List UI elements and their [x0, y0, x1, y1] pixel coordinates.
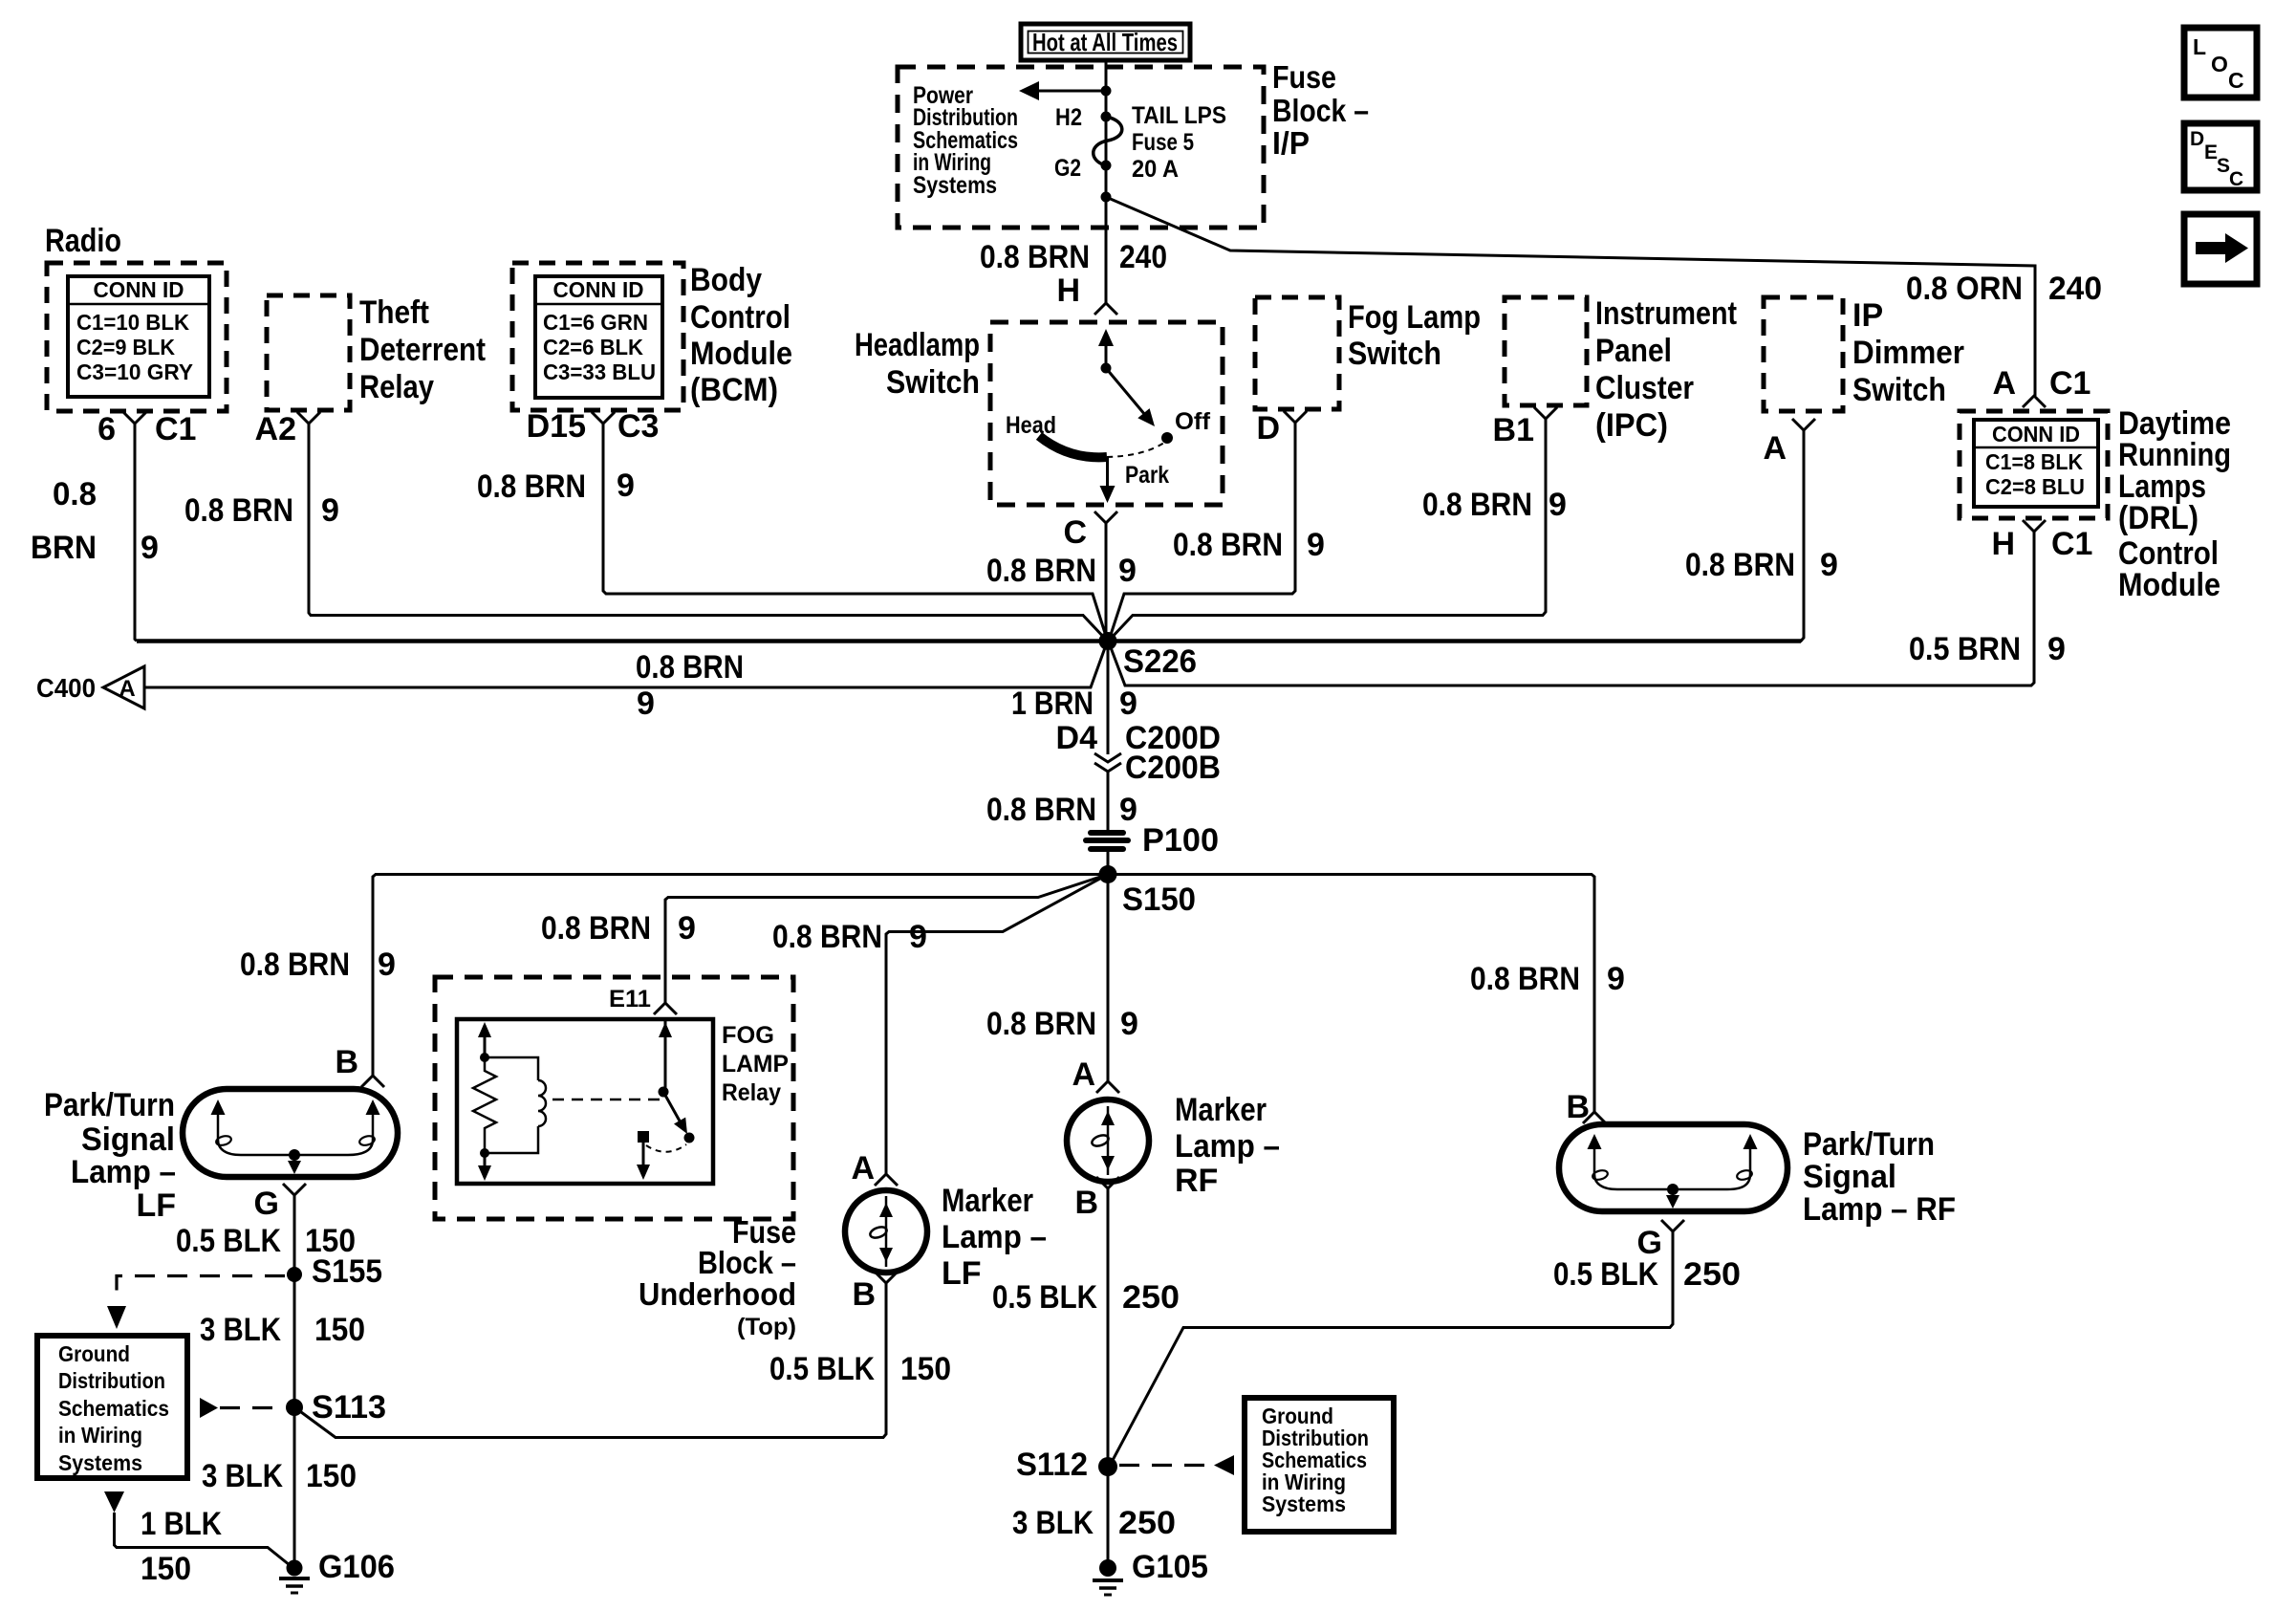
wire 0.5 BLK 250 (marker RF to S112): [1107, 1188, 1110, 1467]
svg-text:Hot at All Times: Hot at All Times: [1032, 28, 1178, 56]
splice S113: [286, 1389, 386, 1426]
svg-text:Instrument: Instrument: [1595, 295, 1737, 332]
svg-text:9: 9: [617, 468, 635, 504]
svg-text:G2: G2: [1054, 155, 1081, 182]
svg-text:S113: S113: [312, 1389, 386, 1426]
svg-text:240: 240: [2048, 271, 2102, 307]
svg-text:LF: LF: [942, 1255, 982, 1292]
instrument panel cluster (IPC): [1505, 295, 1737, 444]
svg-text:C2=9 BLK: C2=9 BLK: [76, 335, 175, 359]
wire S150 to fog lamp relay (0.8 BRN 9): [665, 875, 1108, 1004]
svg-text:0.5 BLK: 0.5 BLK: [1553, 1256, 1658, 1293]
body control module (BCM): [512, 262, 792, 410]
svg-text:Block –: Block –: [1272, 93, 1369, 128]
svg-text:A: A: [1763, 430, 1787, 467]
svg-text:Schematics: Schematics: [58, 1396, 169, 1421]
svg-text:C: C: [2229, 168, 2243, 190]
svg-text:Switch: Switch: [1852, 372, 1946, 408]
svg-text:FOG: FOG: [722, 1022, 774, 1049]
svg-text:0.8 BRN: 0.8 BRN: [1173, 527, 1283, 563]
relay coil: [485, 1057, 546, 1153]
svg-text:S112: S112: [1016, 1447, 1088, 1483]
svg-text:250: 250: [1122, 1279, 1180, 1316]
svg-text:C1=10 BLK: C1=10 BLK: [76, 310, 189, 335]
svg-text:Theft: Theft: [359, 294, 429, 331]
svg-text:(Top): (Top): [737, 1314, 796, 1340]
connector B of marker lamp LF: [852, 1272, 898, 1313]
label 0.8 BRN 9: [986, 792, 1137, 828]
splice S150: [1099, 865, 1197, 918]
svg-text:C3=10 GRY: C3=10 GRY: [76, 359, 193, 384]
svg-text:Body: Body: [690, 262, 762, 298]
svg-text:S155: S155: [312, 1253, 382, 1290]
svg-text:B: B: [1074, 1185, 1098, 1221]
svg-text:0.8 BRN: 0.8 BRN: [184, 492, 293, 529]
Fuse Block - I/P dashed box: [898, 67, 1264, 228]
label 0.5 BRN 9: [1909, 631, 2066, 667]
svg-text:Head: Head: [1006, 412, 1056, 439]
svg-text:S226: S226: [1123, 643, 1197, 680]
DRL connector H C1: [1991, 520, 2092, 562]
svg-text:0.8 BRN: 0.8 BRN: [986, 792, 1096, 828]
svg-text:9: 9: [1607, 961, 1625, 997]
label 0.8 BRN 240: [980, 239, 1167, 275]
park/turn signal lamp LF: [44, 1087, 398, 1224]
relay lower contact with down arrow: [637, 1131, 650, 1180]
wire headlamp switch to S226: [1105, 523, 1108, 641]
wire S150 to marker lamp LF (0.8 BRN 9): [886, 875, 1108, 1175]
svg-text:250: 250: [1683, 1256, 1741, 1293]
arrow to power distribution schematics: [1019, 81, 1112, 100]
BCM connector D15 C3: [527, 408, 660, 445]
svg-text:9: 9: [678, 910, 696, 947]
label 0.5 BLK 150: [769, 1351, 951, 1387]
svg-text:C: C: [1063, 514, 1087, 551]
svg-text:Panel: Panel: [1595, 333, 1672, 369]
connector H into headlamp switch: [1056, 272, 1117, 315]
wire 3 BLK 150 (S155 to S113): [293, 1274, 296, 1407]
label 0.8 ORN 240: [1906, 271, 2102, 307]
ground reference dashed arrow from S112: [1119, 1455, 1234, 1475]
svg-text:CONN ID: CONN ID: [1992, 422, 2080, 446]
svg-text:A: A: [851, 1150, 875, 1186]
svg-text:Lamp – RF: Lamp – RF: [1803, 1191, 1956, 1228]
label: Fuse Block - Underhood (Top): [639, 1214, 796, 1340]
svg-text:Underhood: Underhood: [639, 1276, 796, 1312]
dimmer switch connector A: [1763, 419, 1815, 467]
Off contact: [1161, 408, 1211, 444]
label 1 BRN 9: [1011, 686, 1137, 722]
svg-text:0.5 BRN: 0.5 BRN: [1909, 631, 2021, 667]
svg-text:B: B: [852, 1276, 876, 1313]
splice S155: [287, 1253, 382, 1290]
wire radio to S226 (0.8 BRN 9): [135, 424, 137, 642]
daytime running lamps (DRL) control module: [1960, 405, 2231, 603]
theft relay connector A2: [255, 411, 320, 447]
svg-text:C3: C3: [617, 408, 659, 445]
svg-text:0.8 BRN: 0.8 BRN: [772, 919, 882, 955]
svg-text:0.8 BRN: 0.8 BRN: [1685, 547, 1795, 583]
svg-text:Fuse 5: Fuse 5: [1132, 129, 1194, 156]
svg-text:Park: Park: [1125, 462, 1169, 489]
wire P100 to S150: [1107, 852, 1110, 874]
svg-text:9: 9: [1119, 686, 1137, 722]
svg-text:Block –: Block –: [698, 1245, 796, 1280]
svg-text:G105: G105: [1132, 1549, 1208, 1585]
svg-text:9: 9: [378, 947, 396, 983]
svg-text:3 BLK: 3 BLK: [202, 1458, 283, 1494]
IP dimmer switch: [1764, 297, 1964, 411]
svg-text:250: 250: [1118, 1505, 1176, 1541]
svg-text:D15: D15: [527, 408, 586, 445]
label 0.8 BRN 9 (dimmer wire): [1685, 547, 1838, 583]
svg-text:C2=8 BLU: C2=8 BLU: [1985, 474, 2085, 499]
fog lamp relay box: [457, 1019, 713, 1184]
headlamp switch common feed with up arrow: [1098, 329, 1114, 374]
svg-text:0.8 BRN: 0.8 BRN: [1422, 487, 1532, 523]
svg-text:Marker: Marker: [942, 1183, 1033, 1219]
svg-text:0.8 BRN: 0.8 BRN: [980, 239, 1090, 275]
svg-text:in Wiring: in Wiring: [58, 1423, 142, 1448]
fog lamp switch: [1255, 297, 1481, 409]
svg-text:D4: D4: [1056, 720, 1098, 756]
junction dot below fuse: [1101, 192, 1112, 203]
svg-text:Park/Turn: Park/Turn: [1803, 1126, 1935, 1163]
wire IPC to S226: [1109, 419, 1546, 641]
svg-text:Fog Lamp: Fog Lamp: [1348, 299, 1481, 336]
wire S150 to park/turn RF (0.8 BRN 9): [1108, 875, 1594, 1113]
dashed arc Park to Off: [1107, 443, 1164, 457]
label: FOG LAMP Relay: [722, 1022, 789, 1106]
svg-text:LAMP: LAMP: [722, 1051, 789, 1078]
headlamp switch dashed box: [990, 322, 1223, 505]
svg-text:C1: C1: [155, 411, 196, 447]
svg-text:Headlamp: Headlamp: [855, 327, 980, 363]
label 3 BLK 150: [200, 1312, 365, 1348]
svg-text:Deterrent: Deterrent: [359, 332, 486, 368]
label 0.8 BRN / 9 (C400 wire): [636, 649, 744, 722]
svg-text:A: A: [1072, 1056, 1095, 1093]
connector C200D / C200B: [1056, 720, 1221, 786]
svg-text:E: E: [2204, 142, 2218, 163]
IPC connector B1: [1493, 407, 1557, 448]
svg-text:9: 9: [1119, 792, 1137, 828]
svg-text:Dimmer: Dimmer: [1852, 335, 1964, 371]
svg-text:3 BLK: 3 BLK: [200, 1312, 281, 1348]
wire 3 BLK 250 (S112 to G105): [1107, 1467, 1110, 1568]
label 0.8 BRN 9 (theft relay wire): [184, 492, 339, 529]
svg-text:0.8 BRN: 0.8 BRN: [636, 649, 744, 686]
svg-text:B1: B1: [1493, 412, 1534, 448]
svg-text:Module: Module: [690, 336, 792, 372]
ground reference dashed arrow from S113: [200, 1398, 285, 1418]
connector C below headlamp switch: [1063, 512, 1117, 551]
svg-text:0.8 ORN: 0.8 ORN: [1906, 271, 2023, 307]
svg-text:Cluster: Cluster: [1595, 370, 1694, 406]
svg-text:9: 9: [1307, 527, 1325, 563]
relay actuation dashed link: [552, 1099, 661, 1101]
relay coil branch left pin: [478, 1022, 491, 1181]
ground G105: [1093, 1549, 1208, 1595]
theft deterrent relay: [267, 294, 486, 410]
svg-text:L: L: [2193, 34, 2206, 59]
label 0.8 BRN 9 (headlamp wire): [986, 553, 1137, 589]
label 0.8 BRN 9 (IPC wire): [1422, 487, 1567, 523]
svg-text:CONN ID: CONN ID: [94, 277, 184, 302]
svg-text:C1=6 GRN: C1=6 GRN: [543, 310, 648, 335]
ground distribution schematics box (left): [37, 1336, 187, 1478]
label: Headlamp Switch: [855, 327, 980, 401]
grommet P100: [1086, 822, 1219, 859]
connector G of park/turn LF: [254, 1184, 306, 1222]
svg-text:Control: Control: [690, 299, 791, 336]
svg-text:S: S: [2217, 155, 2230, 177]
wire 0.8 ORN 240 to DRL module: [1106, 197, 2035, 396]
svg-text:D: D: [1256, 410, 1280, 446]
DESC icon box: [2184, 123, 2257, 190]
svg-text:BRN: BRN: [31, 530, 97, 566]
svg-text:Relay: Relay: [722, 1079, 781, 1106]
wire S226 to C400 (0.8 BRN 9): [144, 642, 1107, 687]
splice S226: [1099, 632, 1198, 680]
svg-text:H: H: [1991, 526, 2015, 562]
svg-text:0.8 BRN: 0.8 BRN: [477, 468, 586, 505]
svg-text:Park/Turn: Park/Turn: [44, 1087, 175, 1123]
svg-text:0.8 BRN: 0.8 BRN: [1470, 961, 1580, 997]
forward arrow icon box: [2184, 214, 2257, 284]
svg-text:Switch: Switch: [1348, 336, 1441, 372]
svg-text:A: A: [1992, 365, 2016, 402]
radio component: [45, 223, 227, 411]
wiper thick arc Head to Park: [1039, 436, 1107, 457]
splice S112: [1016, 1447, 1117, 1483]
label 0.8 BRN 9 (marker LF wire): [772, 919, 927, 955]
svg-text:9: 9: [1118, 553, 1137, 589]
marker lamp LF: [845, 1183, 1047, 1292]
svg-text:150: 150: [314, 1312, 365, 1348]
svg-text:3 BLK: 3 BLK: [1012, 1505, 1094, 1541]
connector E11 into fog lamp relay: [609, 986, 677, 1014]
label 0.5 BLK 150: [176, 1223, 356, 1259]
svg-text:9: 9: [1549, 487, 1567, 523]
svg-text:A2: A2: [255, 411, 296, 447]
svg-text:C: C: [2228, 68, 2244, 93]
wire dimmer switch to S226 (bus right end): [1116, 430, 1804, 642]
svg-text:150: 150: [141, 1551, 191, 1587]
svg-text:(IPC): (IPC): [1595, 407, 1668, 444]
svg-text:Lamp –: Lamp –: [942, 1219, 1047, 1255]
svg-text:E11: E11: [609, 986, 651, 1012]
svg-text:240: 240: [1119, 239, 1167, 275]
LOC icon box: [2184, 28, 2257, 98]
reference arrow to G106 from ground box: [104, 1491, 290, 1565]
svg-text:RF: RF: [1175, 1163, 1218, 1199]
connector G of park/turn RF: [1637, 1220, 1684, 1261]
svg-text:Systems: Systems: [1262, 1491, 1346, 1516]
svg-text:Relay: Relay: [359, 369, 434, 405]
wire 0.8 BRN 9 (C200B to P100): [1107, 772, 1110, 830]
svg-text:Signal: Signal: [1803, 1159, 1896, 1195]
label 0.8 BRN 9 (radio wire): [31, 476, 159, 566]
svg-text:Distribution: Distribution: [58, 1368, 165, 1393]
svg-text:1 BLK: 1 BLK: [141, 1506, 222, 1542]
wire S150 to marker lamp RF (0.8 BRN 9): [1107, 875, 1110, 1082]
marker lamp RF: [1067, 1092, 1280, 1199]
svg-text:1 BRN: 1 BRN: [1011, 686, 1094, 722]
park/turn signal lamp RF: [1559, 1124, 1956, 1228]
svg-text:O: O: [2211, 52, 2228, 76]
svg-text:Off: Off: [1175, 408, 1211, 435]
svg-text:Signal: Signal: [81, 1121, 175, 1158]
svg-text:Systems: Systems: [58, 1450, 142, 1475]
fog lamp switch connector D: [1256, 410, 1307, 446]
label 0.8 BRN 9 (BCM wire): [477, 468, 635, 505]
note: Power Distribution Schematics in Wiring Systems: [913, 82, 1018, 199]
label 3 BLK 250: [1012, 1505, 1176, 1541]
svg-text:B: B: [335, 1044, 358, 1080]
label 0.5 BLK 250: [992, 1279, 1180, 1316]
svg-text:9: 9: [141, 530, 159, 566]
label 0.5 BLK 250: [1553, 1256, 1741, 1293]
wire DRL to S226 (0.5 BRN 9): [1109, 532, 2034, 686]
svg-text:0.8 BRN: 0.8 BRN: [986, 1006, 1096, 1042]
wire BCM to S226: [603, 424, 1108, 641]
svg-text:6: 6: [97, 411, 116, 447]
svg-text:150: 150: [900, 1351, 951, 1387]
relay switch arm: [663, 1092, 695, 1143]
svg-text:9: 9: [909, 919, 927, 955]
svg-text:9: 9: [2047, 631, 2066, 667]
svg-text:9: 9: [1820, 547, 1838, 583]
svg-text:I/P: I/P: [1272, 125, 1310, 161]
label 0.8 BRN 9 (fog switch wire): [1173, 527, 1325, 563]
wire 0.5 BLK 150 (LF lamp to S155): [293, 1195, 296, 1274]
connector B of park/turn RF: [1566, 1089, 1606, 1125]
svg-text:Module: Module: [2118, 567, 2220, 603]
svg-text:0.8 BRN: 0.8 BRN: [986, 553, 1096, 589]
dashed arc lower contact to arm: [646, 1144, 686, 1152]
svg-text:LF: LF: [136, 1187, 176, 1224]
label 1 BLK / 150: [141, 1506, 222, 1587]
svg-text:9: 9: [321, 492, 339, 529]
wire from Hot at All Times into fuse block: [1105, 60, 1108, 304]
connector C400: [36, 666, 144, 708]
svg-text:9: 9: [637, 686, 655, 722]
label 0.8 BRN 9 (fog relay wire): [541, 910, 696, 947]
ground reference dashed arrow from S155: [107, 1276, 285, 1330]
svg-text:(DRL): (DRL): [2118, 500, 2199, 536]
wire 1 BRN 9 (S226 to C200): [1107, 642, 1110, 754]
connector B of marker lamp RF: [1074, 1177, 1119, 1221]
ground G106: [279, 1549, 395, 1593]
svg-text:20 A: 20 A: [1132, 156, 1179, 183]
svg-text:C1: C1: [2049, 365, 2090, 402]
svg-text:0.5 BLK: 0.5 BLK: [992, 1279, 1097, 1316]
wire 0.5 BLK 250 (park/turn RF to S112): [1111, 1231, 1673, 1464]
fuse 5 TAIL LPS 20A: [1054, 102, 1226, 183]
svg-text:0.8: 0.8: [53, 476, 97, 512]
wire 3 BLK 150 (S113 to G106): [293, 1407, 296, 1568]
svg-text:Lamp –: Lamp –: [71, 1154, 176, 1190]
resistor in relay: [473, 1057, 496, 1153]
switch arm arrow to Off: [1106, 368, 1155, 426]
Hot at All Times tag: [1021, 24, 1190, 60]
fuse block underhood dashed box: [435, 977, 793, 1219]
park contact wire with down arrow: [1100, 457, 1116, 503]
connector B of park/turn LF: [335, 1044, 384, 1087]
svg-text:C200B: C200B: [1125, 750, 1221, 786]
svg-text:0.5 BLK: 0.5 BLK: [176, 1223, 281, 1259]
svg-text:IP: IP: [1852, 297, 1883, 334]
wire S150 to park/turn LF (0.8 BRN 9): [373, 875, 1108, 1077]
svg-text:A: A: [119, 676, 135, 702]
connector A of marker lamp LF: [851, 1150, 898, 1186]
svg-text:0.8 BRN: 0.8 BRN: [240, 947, 350, 983]
svg-text:CONN ID: CONN ID: [553, 277, 644, 302]
svg-text:C400: C400: [36, 673, 96, 703]
svg-text:H2: H2: [1055, 104, 1082, 131]
svg-text:Fuse: Fuse: [1272, 59, 1336, 95]
wire fog lamp switch to S226: [1109, 423, 1295, 641]
ground distribution schematics box (right): [1245, 1398, 1394, 1532]
label: Fuse Block - I/P: [1272, 59, 1369, 161]
svg-text:0.8 BRN: 0.8 BRN: [541, 910, 651, 947]
svg-text:C2=6 BLK: C2=6 BLK: [543, 335, 643, 359]
svg-text:G106: G106: [318, 1549, 395, 1585]
wire 0.5 BLK 150 (marker LF to S113): [297, 1283, 886, 1438]
label 0.8 BRN 9 (LF park wire): [240, 947, 396, 983]
svg-text:D: D: [2190, 128, 2204, 150]
svg-text:TAIL LPS: TAIL LPS: [1132, 102, 1226, 129]
svg-text:Lamp –: Lamp –: [1175, 1128, 1280, 1165]
svg-text:P100: P100: [1142, 822, 1219, 859]
svg-text:C3=33 BLU: C3=33 BLU: [543, 359, 656, 384]
svg-text:C1: C1: [2051, 526, 2092, 562]
svg-text:G: G: [254, 1186, 279, 1222]
radio connector 6 C1: [97, 411, 196, 447]
wire theft relay to S226: [309, 424, 1107, 641]
thick bus wire radio-to-dimmer through S226: [137, 639, 1801, 643]
svg-text:Marker: Marker: [1175, 1092, 1267, 1128]
svg-text:Systems: Systems: [913, 172, 997, 199]
label 0.8 BRN 9 (RF park wire): [1470, 961, 1625, 997]
svg-text:S150: S150: [1122, 882, 1196, 918]
connector A of marker lamp RF: [1072, 1056, 1119, 1093]
DRL connector A C1: [1992, 365, 2090, 407]
svg-text:Switch: Switch: [886, 364, 980, 401]
svg-text:9: 9: [1120, 1006, 1138, 1042]
svg-text:Radio: Radio: [45, 223, 121, 259]
svg-text:150: 150: [306, 1458, 357, 1494]
label 0.8 BRN 9 (marker RF wire): [986, 1006, 1138, 1042]
label 3 BLK 150 (lower): [202, 1458, 357, 1494]
svg-text:H: H: [1056, 272, 1080, 309]
relay switch common pin (from E11): [659, 1019, 673, 1098]
svg-text:0.5 BLK: 0.5 BLK: [769, 1351, 875, 1387]
svg-text:Ground: Ground: [58, 1341, 130, 1366]
svg-text:(BCM): (BCM): [690, 372, 778, 408]
svg-text:C1=8 BLK: C1=8 BLK: [1985, 449, 2083, 474]
